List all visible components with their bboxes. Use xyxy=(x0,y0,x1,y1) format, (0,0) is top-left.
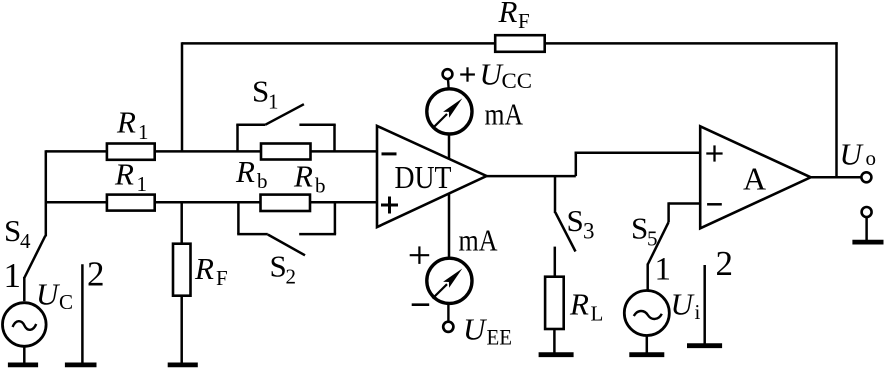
resistor Rb top xyxy=(261,144,311,160)
label S1 xyxy=(252,74,279,114)
wire S5 position 1 stub xyxy=(646,264,649,292)
svg-text:1: 1 xyxy=(268,90,279,114)
wire to A plus input xyxy=(575,152,701,155)
wire Ui bottom lead xyxy=(646,335,649,354)
wire bottom rail segment B xyxy=(155,201,261,204)
svg-text:S: S xyxy=(4,213,21,248)
terminal Uo xyxy=(861,172,871,182)
svg-text:R: R xyxy=(116,105,136,140)
plus sign of UEE terminal xyxy=(410,246,430,264)
wire bottom rail segment A xyxy=(46,201,107,204)
svg-text:3: 3 xyxy=(583,219,595,244)
switch S1 right horizontal xyxy=(299,123,335,126)
label Rb left xyxy=(235,154,268,193)
wire top rail segment B xyxy=(155,150,261,153)
ground under output terminal xyxy=(852,240,883,245)
wire top rail segment C xyxy=(311,150,378,153)
label UC xyxy=(36,277,73,315)
label UEE xyxy=(463,312,512,350)
svg-text:1: 1 xyxy=(138,120,149,144)
svg-text:R: R xyxy=(498,0,518,29)
svg-text:R: R xyxy=(235,154,255,189)
wire top feedback right segment xyxy=(545,42,838,45)
wire S4 position 1 stub xyxy=(23,277,26,301)
resistor R1 bottom xyxy=(107,195,155,211)
label Uo xyxy=(840,137,877,172)
label RF top xyxy=(498,0,530,33)
wire feedback right vertical drop to output xyxy=(835,42,838,177)
ground under RF shunt xyxy=(168,362,198,367)
svg-text:EE: EE xyxy=(487,325,513,350)
ground under S5 position 2 xyxy=(687,343,722,348)
ground under UC xyxy=(8,362,38,367)
wire A output xyxy=(811,176,862,179)
minus sign of UEE terminal xyxy=(412,303,430,306)
label UCC xyxy=(480,56,533,93)
wire RF shunt top lead xyxy=(180,201,183,244)
svg-text:C: C xyxy=(59,290,73,314)
ammeter bottom mA xyxy=(427,258,472,332)
svg-text:R: R xyxy=(293,159,313,194)
switch S2 blade xyxy=(268,235,305,256)
svg-text:F: F xyxy=(518,9,530,33)
label S5 xyxy=(631,211,658,251)
label Rb right xyxy=(293,159,326,198)
svg-text:mA: mA xyxy=(485,97,524,132)
switch S5 blade xyxy=(648,222,669,264)
source Ui xyxy=(624,291,669,336)
svg-text:DUT: DUT xyxy=(395,159,452,195)
svg-text:U: U xyxy=(463,312,488,347)
switch S2 left vertical stub xyxy=(237,202,240,234)
switch S2 left horizontal xyxy=(237,233,268,236)
svg-text:S: S xyxy=(567,203,584,238)
label S2 xyxy=(270,249,297,289)
switch S3 bottom stub xyxy=(554,247,557,277)
resistor R1 top xyxy=(107,144,155,160)
svg-text:S: S xyxy=(252,74,269,109)
wire bottom rail segment C xyxy=(310,201,378,204)
svg-text:2: 2 xyxy=(286,265,297,289)
resistor RL xyxy=(545,277,564,329)
wire output ground lead xyxy=(865,217,868,241)
wire RL bottom lead xyxy=(553,329,556,354)
wire meter line through DUT xyxy=(448,133,451,259)
label Ui xyxy=(671,287,701,325)
switch S5 top stub xyxy=(667,202,670,222)
source UC xyxy=(3,303,47,347)
svg-text:S: S xyxy=(270,249,287,284)
label R1 bottom xyxy=(114,157,147,197)
svg-text:R: R xyxy=(569,287,589,322)
terminal output ground side xyxy=(862,207,872,217)
ground under S4 position 2 xyxy=(65,362,97,367)
wire DUT output xyxy=(487,175,576,178)
svg-text:A: A xyxy=(743,161,766,197)
switch S3 blade xyxy=(555,213,575,252)
svg-text:4: 4 xyxy=(20,229,31,253)
op-amp A xyxy=(700,126,811,228)
switch S1 blade xyxy=(265,104,304,125)
ground under RL xyxy=(539,352,574,357)
svg-text:5: 5 xyxy=(647,227,658,251)
svg-text:R: R xyxy=(114,157,134,192)
svg-text:F: F xyxy=(216,266,228,290)
wire S5 position 2 line xyxy=(703,265,706,345)
svg-text:L: L xyxy=(591,302,604,326)
wire A minus input xyxy=(669,202,701,205)
svg-text:U: U xyxy=(840,137,865,172)
svg-text:U: U xyxy=(671,287,696,322)
svg-text:o: o xyxy=(866,146,877,170)
label R1 top xyxy=(116,105,149,145)
switch S3 top stub xyxy=(554,176,557,213)
switch S2 right vertical stub xyxy=(334,202,337,234)
svg-text:b: b xyxy=(257,169,268,193)
svg-text:mA: mA xyxy=(459,223,499,258)
svg-text:U: U xyxy=(36,277,61,312)
plus sign of UCC terminal xyxy=(460,67,475,81)
wire step vertical xyxy=(575,152,578,177)
svg-text:1: 1 xyxy=(137,172,148,196)
ammeter top mA xyxy=(427,69,472,134)
resistor RF top xyxy=(495,35,545,52)
label RF shunt xyxy=(194,251,228,290)
label S4 xyxy=(4,213,31,253)
switch S1 right vertical stub xyxy=(333,124,336,151)
op-amp DUT xyxy=(377,126,487,227)
wire RF shunt bottom lead xyxy=(180,296,183,364)
wire top rail segment A xyxy=(46,150,107,153)
svg-text:i: i xyxy=(695,300,701,324)
svg-text:CC: CC xyxy=(502,68,533,93)
label S3 xyxy=(567,203,595,244)
wire UC bottom lead xyxy=(23,348,26,365)
wire top feedback left segment xyxy=(182,42,495,45)
svg-text:b: b xyxy=(315,174,326,198)
svg-text:1: 1 xyxy=(4,256,22,295)
svg-text:1: 1 xyxy=(655,252,672,288)
svg-text:2: 2 xyxy=(87,255,105,294)
switch S1 left horizontal xyxy=(236,123,265,126)
switch S4 blade xyxy=(24,236,45,279)
wire S4 position 2 line xyxy=(81,264,84,364)
svg-text:R: R xyxy=(194,251,214,286)
resistor RF shunt xyxy=(173,244,191,296)
wire feedback left vertical drop to top rail xyxy=(181,42,184,151)
switch S2 right horizontal xyxy=(299,233,336,236)
resistor Rb bottom xyxy=(261,195,311,211)
svg-text:S: S xyxy=(631,211,648,246)
wire left vertical joining rails to S4 pole xyxy=(45,150,48,236)
switch S1 left vertical stub xyxy=(236,124,239,151)
ground under Ui xyxy=(629,352,664,357)
label RL xyxy=(569,287,603,326)
svg-text:2: 2 xyxy=(716,244,734,283)
